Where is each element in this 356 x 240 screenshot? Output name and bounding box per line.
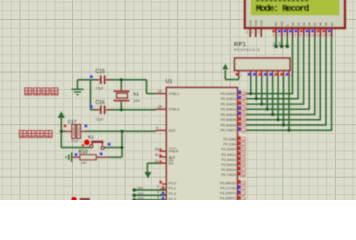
svg-text:11: 11 bbox=[242, 187, 245, 191]
svg-text:36: 36 bbox=[242, 108, 246, 112]
svg-text:SW1: SW1 bbox=[137, 186, 144, 190]
svg-text:P2.3/A11: P2.3/A11 bbox=[221, 153, 236, 157]
svg-text:12M: 12M bbox=[133, 99, 140, 103]
svg-text:28: 28 bbox=[242, 173, 246, 177]
svg-text:100: 100 bbox=[81, 161, 87, 165]
svg-text:33: 33 bbox=[242, 123, 246, 127]
svg-text:RP1: RP1 bbox=[234, 42, 246, 48]
svg-text:32: 32 bbox=[242, 128, 246, 132]
svg-text:EA: EA bbox=[169, 162, 174, 166]
svg-text:P0.2/AD2: P0.2/AD2 bbox=[221, 103, 236, 107]
svg-text:18: 18 bbox=[158, 105, 162, 109]
svg-text:11: 11 bbox=[312, 33, 315, 37]
svg-text:SW3: SW3 bbox=[137, 196, 144, 200]
svg-text:14: 14 bbox=[328, 33, 332, 37]
svg-text:P2.4/A12: P2.4/A12 bbox=[221, 158, 236, 162]
svg-text:PSEN: PSEN bbox=[169, 150, 179, 154]
svg-text:VSS: VSS bbox=[248, 20, 252, 26]
svg-text:D2: D2 bbox=[302, 22, 306, 26]
svg-text:34: 34 bbox=[242, 118, 246, 122]
svg-text:D3: D3 bbox=[308, 22, 312, 26]
svg-text:XTAL2: XTAL2 bbox=[169, 108, 180, 112]
svg-text:P1.3: P1.3 bbox=[169, 197, 176, 200]
svg-text:RW: RW bbox=[280, 21, 284, 26]
svg-text:10uF: 10uF bbox=[71, 139, 79, 143]
svg-text:XTAL1: XTAL1 bbox=[169, 92, 180, 96]
svg-text:P0.1/AD1: P0.1/AD1 bbox=[221, 97, 236, 101]
svg-text:2: 2 bbox=[157, 185, 159, 189]
svg-text:10: 10 bbox=[306, 33, 310, 37]
svg-text:22: 22 bbox=[242, 143, 246, 147]
svg-text:26: 26 bbox=[242, 163, 246, 167]
svg-text:D4: D4 bbox=[313, 22, 317, 26]
svg-text:35: 35 bbox=[242, 113, 246, 117]
svg-text:P0.4/AD4: P0.4/AD4 bbox=[221, 113, 236, 117]
svg-text:D1: D1 bbox=[296, 22, 300, 26]
svg-text:9: 9 bbox=[156, 126, 158, 130]
svg-text:P2.6/A14: P2.6/A14 bbox=[221, 168, 236, 172]
svg-text:RESPACK-8: RESPACK-8 bbox=[234, 48, 260, 52]
svg-text:37: 37 bbox=[242, 102, 246, 106]
svg-text:D6: D6 bbox=[324, 22, 328, 26]
svg-text:22pF: 22pF bbox=[96, 117, 105, 121]
svg-text:D5: D5 bbox=[319, 22, 323, 26]
svg-text:VDD: VDD bbox=[254, 19, 258, 26]
svg-text:SW2: SW2 bbox=[137, 192, 144, 196]
svg-text:13: 13 bbox=[242, 197, 246, 200]
svg-text:P3.1/TXD: P3.1/TXD bbox=[220, 187, 236, 191]
svg-text:30: 30 bbox=[155, 153, 159, 157]
svg-text:X1: X1 bbox=[133, 91, 139, 97]
svg-text:P3.3/INT1: P3.3/INT1 bbox=[220, 197, 236, 200]
svg-text:C15: C15 bbox=[96, 69, 105, 75]
svg-text:P0.0/AD0: P0.0/AD0 bbox=[221, 92, 236, 96]
svg-text:25: 25 bbox=[242, 158, 246, 162]
svg-text:P1.0: P1.0 bbox=[169, 181, 176, 185]
svg-text:P3.0/RXD: P3.0/RXD bbox=[220, 181, 236, 185]
svg-text:ALE: ALE bbox=[169, 155, 176, 159]
svg-text:22pF: 22pF bbox=[96, 87, 105, 91]
svg-text:13: 13 bbox=[323, 33, 327, 37]
svg-text:P3.2/INT0: P3.2/INT0 bbox=[220, 192, 236, 196]
svg-text:P2.7/A15: P2.7/A15 bbox=[221, 173, 236, 177]
svg-text:RS: RS bbox=[274, 22, 278, 26]
svg-text:K1: K1 bbox=[88, 134, 94, 139]
svg-text:D7: D7 bbox=[330, 22, 334, 26]
svg-text:29: 29 bbox=[155, 147, 159, 151]
svg-text:21: 21 bbox=[242, 137, 246, 141]
svg-text:39: 39 bbox=[242, 92, 246, 96]
svg-text:P0.7/AD7: P0.7/AD7 bbox=[221, 129, 236, 133]
svg-text:19: 19 bbox=[158, 89, 162, 93]
svg-text:12: 12 bbox=[317, 33, 321, 37]
svg-text:P0.3/AD3: P0.3/AD3 bbox=[221, 108, 236, 112]
svg-text:D0: D0 bbox=[291, 22, 295, 26]
svg-text:U1: U1 bbox=[166, 79, 173, 85]
svg-text:P0.5/AD5: P0.5/AD5 bbox=[221, 118, 236, 122]
svg-text:VEE: VEE bbox=[259, 20, 263, 26]
svg-text:10: 10 bbox=[242, 181, 246, 185]
svg-text:P2.1/A9: P2.1/A9 bbox=[223, 143, 236, 147]
svg-text:12: 12 bbox=[242, 192, 246, 196]
svg-text:P1.1: P1.1 bbox=[169, 187, 176, 191]
svg-text:P0.6/AD6: P0.6/AD6 bbox=[221, 123, 236, 127]
svg-text:38: 38 bbox=[242, 97, 246, 101]
svg-text:P2.5/A13: P2.5/A13 bbox=[221, 163, 236, 167]
svg-text:P1.2: P1.2 bbox=[169, 192, 176, 196]
svg-text:23: 23 bbox=[242, 148, 246, 152]
svg-text:C16: C16 bbox=[96, 100, 105, 106]
svg-text:P2.0/A8: P2.0/A8 bbox=[223, 138, 236, 142]
svg-text:27: 27 bbox=[242, 168, 246, 172]
svg-text:C17: C17 bbox=[68, 119, 77, 125]
svg-text:24: 24 bbox=[242, 153, 246, 157]
svg-text:P2.2/A10: P2.2/A10 bbox=[221, 148, 236, 152]
svg-text:Mode: Record: Mode: Record bbox=[256, 3, 310, 14]
svg-text:RST: RST bbox=[169, 129, 177, 133]
svg-text:E: E bbox=[285, 24, 289, 26]
